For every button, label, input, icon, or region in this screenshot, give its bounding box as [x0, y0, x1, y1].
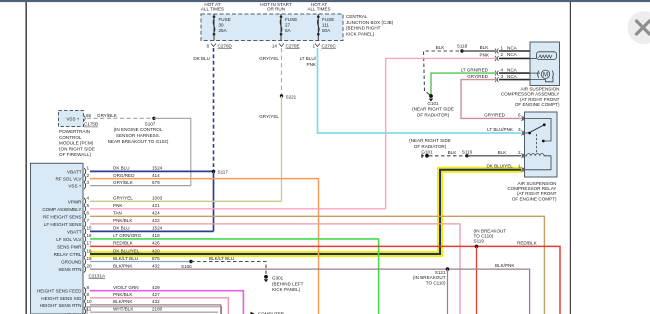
- svg-text:PNK/BLK: PNK/BLK: [113, 218, 133, 223]
- svg-text:BLK: BLK: [436, 45, 446, 50]
- svg-text:CONTROL: CONTROL: [59, 135, 82, 140]
- wire GRY/BLK pin 3: [87, 180, 191, 186]
- svg-text:LT BLU/PNK: LT BLU/PNK: [487, 127, 514, 132]
- svg-text:S117: S117: [218, 169, 229, 174]
- svg-text:MODULE (PCM): MODULE (PCM): [59, 141, 94, 146]
- svg-text:GRY/BLK: GRY/BLK: [97, 113, 118, 118]
- svg-text:VSS +: VSS +: [66, 117, 79, 122]
- compressor assembly label: [501, 86, 560, 107]
- svg-text:PNK/BLK: PNK/BLK: [113, 292, 133, 297]
- splice S119: [474, 229, 538, 249]
- svg-text:OF FIREWALL): OF FIREWALL): [59, 152, 91, 157]
- wire BLK/PNK branch from S121 down: [447, 269, 449, 314]
- svg-text:LF HEIGHT SENS: LF HEIGHT SENS: [44, 222, 82, 227]
- wire VIO/LT GRN pin 8: [87, 285, 244, 314]
- svg-text:GRY/YEL: GRY/YEL: [259, 114, 279, 119]
- svg-text:2: 2: [87, 173, 90, 178]
- wire LT GRN/RED from G101 to compressor pin 4: [431, 67, 496, 95]
- svg-text:10: 10: [87, 299, 93, 304]
- svg-text:TO C110): TO C110): [426, 281, 446, 286]
- svg-text:7: 7: [87, 218, 90, 223]
- fuse 111 50A: [317, 14, 334, 41]
- svg-text:2: 2: [501, 52, 504, 57]
- VSS+ pin 65 / C175B: [84, 113, 98, 127]
- wire BLK from S116 to relay pin 2: [467, 150, 522, 156]
- air suspension compressor relay K1: [525, 112, 558, 177]
- compressor pin 1: [495, 45, 530, 53]
- PCM VSS+ box: [59, 111, 84, 127]
- svg-text:DK BLU: DK BLU: [113, 166, 130, 171]
- svg-text:G101: G101: [427, 101, 439, 106]
- svg-text:17: 17: [87, 241, 93, 246]
- svg-text:NCA: NCA: [507, 52, 518, 57]
- svg-text:GRY/RED: GRY/RED: [467, 74, 489, 79]
- PCM label: [59, 129, 95, 157]
- ground G101 (relay): [409, 138, 451, 158]
- svg-text:FUSE: FUSE: [322, 17, 334, 22]
- svg-text:BLK/PNK: BLK/PNK: [113, 263, 133, 268]
- svg-text:C270C: C270C: [322, 44, 337, 49]
- svg-text:DK BLU/YEL: DK BLU/YEL: [113, 248, 140, 253]
- svg-text:GRY/BLK: GRY/BLK: [113, 180, 134, 185]
- wire BLK/LT BLU pin 19 to S106: [87, 256, 191, 262]
- svg-text:M: M: [543, 73, 548, 79]
- svg-text:RF HEIGHT SENS: RF HEIGHT SENS: [43, 214, 81, 219]
- svg-text:15: 15: [87, 226, 93, 231]
- pin 18 text DK BLU/YEL: [87, 248, 161, 253]
- svg-text:OF RADIATOR): OF RADIATOR): [417, 112, 450, 117]
- left cut-off component box edge: [25, 0, 27, 314]
- svg-text:20: 20: [87, 263, 93, 268]
- svg-text:1: 1: [87, 166, 90, 171]
- svg-text:VBATT: VBATT: [67, 169, 82, 174]
- svg-text:418: 418: [152, 233, 160, 238]
- wire GRY/BLK dashed from VSS+ to S107: [87, 113, 153, 118]
- svg-text:VSS +: VSS +: [68, 184, 81, 189]
- compressor pin 2: [495, 52, 530, 61]
- svg-text:SENSOR HARNESS.: SENSOR HARNESS.: [116, 133, 160, 138]
- wire DK BLU vertical S117 to pin 15 row: [213, 171, 215, 231]
- svg-text:1: 1: [312, 44, 315, 49]
- svg-text:8: 8: [87, 285, 90, 290]
- splice S221: [280, 94, 297, 99]
- wire RED/BLK pin 17: [87, 241, 561, 314]
- compressor pin 4: [495, 67, 530, 75]
- svg-text:18: 18: [87, 248, 93, 253]
- connector C2131A label: [89, 273, 107, 278]
- svg-text:G301: G301: [272, 276, 284, 281]
- svg-text:GROUND: GROUND: [61, 260, 82, 265]
- svg-text:6: 6: [518, 112, 521, 117]
- svg-text:NCA: NCA: [507, 67, 518, 72]
- wire PNK from pin 5 row up to compressor pin 2: [386, 52, 496, 209]
- svg-text:S118: S118: [457, 44, 468, 49]
- svg-text:5A: 5A: [285, 28, 292, 33]
- splice S117: [212, 169, 229, 174]
- relay pin 6 label: [484, 112, 524, 121]
- svg-text:(BEHIND LEFT: (BEHIND LEFT: [272, 281, 304, 286]
- svg-text:RELAY CTRL: RELAY CTRL: [54, 252, 82, 257]
- svg-text:COMP ASSEMBLY: COMP ASSEMBLY: [42, 207, 81, 212]
- fuse 30 25A: [213, 14, 231, 41]
- svg-text:1524: 1524: [152, 226, 163, 231]
- svg-text:S106: S106: [181, 264, 192, 269]
- viewer panel divider: [569, 0, 571, 314]
- svg-text:BLK: BLK: [448, 150, 458, 155]
- svg-text:1524: 1524: [152, 166, 163, 171]
- svg-text:(BEHIND RIGHT: (BEHIND RIGHT: [346, 26, 381, 31]
- svg-text:OF ENGINE COMPT): OF ENGINE COMPT): [512, 196, 557, 201]
- svg-text:FUSE: FUSE: [285, 17, 297, 22]
- svg-text:424: 424: [152, 211, 160, 216]
- svg-text:9: 9: [87, 292, 90, 297]
- central junction box CJB: [201, 14, 343, 41]
- svg-text:11: 11: [87, 306, 92, 311]
- svg-text:429: 429: [152, 285, 160, 290]
- svg-text:8: 8: [206, 44, 209, 49]
- hot-at-all-times header 2: [307, 2, 330, 12]
- svg-text:(NEAR RIGHT SIDE: (NEAR RIGHT SIDE: [409, 138, 451, 143]
- connector C270D pin 8: [206, 44, 232, 49]
- splice S116: [462, 149, 473, 157]
- svg-text:LT GRN/ORG: LT GRN/ORG: [113, 233, 142, 238]
- svg-text:6: 6: [87, 211, 90, 216]
- close button: [628, 11, 650, 44]
- svg-text:DK BLU/YEL: DK BLU/YEL: [486, 164, 513, 169]
- svg-text:ALL TIMES: ALL TIMES: [307, 7, 330, 12]
- svg-text:(NEAR RIGHT SIDE: (NEAR RIGHT SIDE: [412, 107, 454, 112]
- svg-text:1: 1: [518, 164, 521, 169]
- wire BLK dashed from G101 to S116: [429, 150, 466, 156]
- wire DK BLU pin 1 to S117: [87, 166, 214, 172]
- fuse 27 5A: [280, 14, 298, 41]
- svg-text:C2131A: C2131A: [89, 273, 107, 278]
- svg-text:420: 420: [152, 248, 160, 253]
- wire GRY/YEL from C270E to S221 (dashed): [259, 48, 281, 96]
- svg-text:S107: S107: [145, 121, 156, 126]
- svg-text:RED/BLK: RED/BLK: [113, 241, 134, 246]
- svg-text:S119: S119: [474, 239, 485, 244]
- wire DK BLU/YEL thick from pin 18 up to relay pin 1: [90, 164, 522, 254]
- svg-text:OF RADIATOR): OF RADIATOR): [414, 144, 447, 149]
- svg-text:GRY/YEL: GRY/YEL: [113, 196, 133, 201]
- svg-text:1003: 1003: [152, 196, 163, 201]
- svg-text:KICK PANEL): KICK PANEL): [346, 31, 375, 36]
- air suspension compressor assembly U1: [530, 42, 560, 86]
- svg-text:GRY/RED: GRY/RED: [484, 112, 506, 117]
- relay pin 1: [518, 164, 525, 173]
- svg-text:65: 65: [86, 113, 92, 118]
- svg-text:5: 5: [87, 203, 90, 208]
- wire LT BLU/PNK from C270C down and right to relay pin 3: [300, 48, 522, 133]
- wire RED/BLK branch from S119 down: [476, 246, 478, 314]
- hot-at-all-times header 1: [201, 2, 224, 12]
- ground G301: [264, 275, 304, 292]
- svg-text:14: 14: [272, 44, 278, 49]
- svg-text:414: 414: [152, 173, 160, 178]
- svg-text:VPWR: VPWR: [68, 199, 82, 204]
- relay pin 3 label: [487, 127, 524, 136]
- connector C270C pin 1: [312, 44, 336, 49]
- splice S118: [457, 44, 468, 53]
- wire TAN pin 6: [87, 211, 545, 314]
- svg-text:3: 3: [501, 74, 504, 79]
- wire BLK/PNK pin 20: [87, 263, 530, 314]
- svg-text:TAN: TAN: [113, 211, 122, 216]
- svg-text:(ON RIGHT SIDE: (ON RIGHT SIDE: [59, 146, 95, 151]
- svg-text:POWERTRAIN: POWERTRAIN: [59, 129, 90, 134]
- splice S107: [108, 117, 169, 144]
- svg-text:CENTRAL: CENTRAL: [346, 14, 368, 19]
- svg-text:579: 579: [152, 180, 160, 185]
- connector C270E pin 14: [272, 44, 300, 49]
- svg-text:HEIGHT SENS SIG: HEIGHT SENS SIG: [41, 296, 82, 301]
- svg-text:HEIGHT SENS FEED: HEIGHT SENS FEED: [37, 289, 82, 294]
- svg-text:25A: 25A: [219, 28, 228, 33]
- svg-text:OR RUN: OR RUN: [267, 7, 285, 12]
- svg-text:LT BLU/: LT BLU/: [300, 56, 317, 61]
- svg-text:DK BLU: DK BLU: [193, 56, 210, 61]
- svg-text:WHT/BLK: WHT/BLK: [113, 306, 134, 311]
- svg-text:SENS RTN: SENS RTN: [58, 267, 81, 272]
- svg-text:SENS PWR: SENS PWR: [57, 244, 82, 249]
- svg-text:2180: 2180: [152, 306, 163, 311]
- module connector pin chevrons: [84, 168, 86, 314]
- svg-text:RF SOL VLV: RF SOL VLV: [55, 177, 82, 182]
- svg-text:OF ENGINE COMPT): OF ENGINE COMPT): [515, 102, 560, 107]
- computer link label: [251, 311, 285, 314]
- svg-text:27: 27: [285, 23, 291, 28]
- wire DK BLU from C270D to S117 (dashed): [193, 48, 213, 171]
- svg-text:BLK/LT BLU: BLK/LT BLU: [209, 256, 234, 261]
- svg-text:422: 422: [152, 218, 160, 223]
- ground G101 (compressor): [412, 94, 454, 117]
- wire PNK/BLK pin 9: [87, 292, 229, 314]
- svg-text:FUSE: FUSE: [219, 17, 231, 22]
- module pin name labels: [37, 169, 83, 314]
- svg-text:BLK/LT BLU: BLK/LT BLU: [113, 256, 138, 261]
- wire BLK/PNK pin 10: [87, 299, 221, 314]
- wire GRY/YEL from S221 down to row 4: [259, 96, 281, 201]
- splice S106: [181, 260, 193, 269]
- svg-text:3: 3: [518, 127, 521, 132]
- wire BLK dashed from G101 up to S118: [424, 45, 462, 95]
- svg-text:(IN ENGINE CONTROL: (IN ENGINE CONTROL: [114, 127, 163, 132]
- svg-text:C270D: C270D: [218, 44, 233, 49]
- svg-text:NCA: NCA: [507, 45, 518, 50]
- svg-text:C175B: C175B: [84, 122, 98, 127]
- svg-text:19: 19: [87, 256, 93, 261]
- svg-text:LF SOL VLV: LF SOL VLV: [56, 237, 82, 242]
- svg-text:3: 3: [87, 180, 90, 185]
- viewer header bar: [0, 0, 650, 2]
- svg-text:PNK: PNK: [307, 62, 317, 67]
- svg-text:PNK: PNK: [480, 52, 490, 57]
- wire WHT/BLK pin 11: [87, 306, 219, 312]
- wire LT GRN/ORG pin 16: [87, 233, 379, 314]
- wire GRY/RED from relay pin 6 up to compressor pin 3: [461, 74, 523, 119]
- svg-text:16: 16: [87, 233, 93, 238]
- svg-text:2: 2: [518, 150, 521, 155]
- wire PNK/BLK pin 7: [87, 218, 461, 314]
- svg-text:C270E: C270E: [286, 44, 300, 49]
- svg-text:1: 1: [501, 45, 504, 50]
- svg-text:KICK PANEL): KICK PANEL): [272, 287, 301, 292]
- air suspension module connector box: [31, 163, 84, 314]
- compressor relay label: [507, 181, 557, 202]
- relay pin 2: [518, 150, 525, 159]
- svg-text:4: 4: [501, 67, 504, 72]
- wire zone box row 11: [87, 307, 222, 314]
- svg-text:BLK: BLK: [498, 150, 508, 155]
- svg-text:(IN BREAKOUT: (IN BREAKOUT: [413, 275, 446, 280]
- svg-text:S221: S221: [286, 94, 297, 99]
- svg-text:GRY/YEL: GRY/YEL: [259, 56, 279, 61]
- svg-text:111: 111: [322, 23, 329, 28]
- svg-text:G101: G101: [421, 150, 433, 155]
- svg-text:30: 30: [219, 23, 225, 28]
- svg-text:BLK/PNK: BLK/PNK: [113, 299, 133, 304]
- svg-text:VBATT: VBATT: [67, 229, 82, 234]
- svg-text:432: 432: [152, 263, 160, 268]
- wire BLK/LT BLU dashed S106 to G301: [191, 256, 266, 275]
- svg-text:ORG/RED: ORG/RED: [113, 173, 135, 178]
- svg-text:432: 432: [152, 299, 160, 304]
- svg-text:RED/BLK: RED/BLK: [517, 241, 538, 246]
- CJB name label: [346, 14, 394, 36]
- svg-text:427: 427: [152, 292, 160, 297]
- wire BLK from S118 to compressor pin 1: [462, 45, 496, 51]
- svg-text:NEAR BREAKOUT TO G102): NEAR BREAKOUT TO G102): [108, 139, 169, 144]
- svg-text:JUNCTION BOX (CJB): JUNCTION BOX (CJB): [346, 20, 394, 25]
- wire GRY/BLK from S107 down to pin 3: [154, 118, 191, 185]
- hot-in-start-or-run header: [260, 2, 292, 12]
- wire PNK pin 5: [87, 203, 386, 209]
- wire ORG/RED pin 2: [87, 173, 319, 314]
- splice S121: [413, 267, 449, 285]
- svg-text:BLK/PNK: BLK/PNK: [495, 263, 515, 268]
- svg-text:4: 4: [87, 196, 90, 201]
- svg-text:PNK: PNK: [113, 203, 123, 208]
- svg-text:BLK: BLK: [480, 45, 490, 50]
- svg-text:VIO/LT GRN: VIO/LT GRN: [113, 285, 139, 290]
- svg-text:426: 426: [152, 241, 160, 246]
- svg-text:ALL TIMES: ALL TIMES: [201, 7, 224, 12]
- svg-text:DK BLU: DK BLU: [113, 226, 130, 231]
- svg-text:421: 421: [152, 203, 160, 208]
- svg-text:S116: S116: [462, 149, 473, 154]
- wire GRY/YEL pin 4: [87, 196, 282, 202]
- svg-text:50A: 50A: [322, 28, 331, 33]
- svg-text:NCA: NCA: [507, 74, 518, 79]
- wire DK BLU pin 15: [87, 226, 214, 232]
- svg-text:HEIGHT SENS RTN: HEIGHT SENS RTN: [40, 303, 82, 308]
- svg-text:875: 875: [152, 256, 160, 261]
- svg-text:LT GRN/RED: LT GRN/RED: [461, 67, 489, 72]
- compressor pin 3: [495, 74, 530, 82]
